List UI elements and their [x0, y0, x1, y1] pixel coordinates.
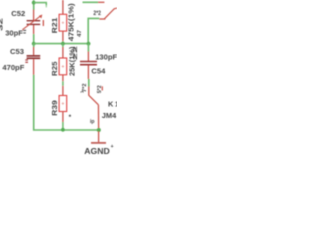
jumper JM4 top contact (diagonal): [104, 8, 117, 19]
junction node centre: [61, 42, 65, 46]
svg-text:C54: C54: [91, 66, 106, 75]
wire between R25 and R39: [62, 81, 64, 86]
resistor R25: [59, 44, 67, 82]
junction node mid left: [32, 42, 36, 46]
svg-text:K: K: [108, 99, 114, 108]
junction node bottom right: [97, 128, 101, 132]
wire stub above jumper: [88, 79, 90, 87]
svg-text:R39: R39: [50, 100, 59, 116]
junction node right: [87, 42, 91, 46]
svg-text:475K(1%): 475K(1%): [67, 3, 76, 42]
ground AGND bar: [91, 142, 106, 144]
svg-text:C53: C53: [10, 47, 24, 56]
jumper JM4 top pin stub: [99, 18, 105, 20]
svg-text:47: 47: [77, 30, 83, 37]
pin mark (red): [102, 86, 103, 90]
wire below C52: [33, 34, 35, 44]
svg-text:C52: C52: [11, 9, 25, 18]
svg-text:2*2: 2*2: [93, 10, 101, 17]
pin stub top right (red): [98, 1, 104, 3]
capacitor C53: [27, 44, 41, 75]
resistor R39: [59, 86, 67, 122]
svg-text:R21: R21: [50, 18, 59, 34]
wire branch over and short stub down: [34, 2, 47, 4]
svg-text:7*2: 7*2: [82, 83, 88, 92]
svg-text:32: 32: [0, 18, 5, 31]
junction node bottom centre: [61, 128, 65, 132]
wire into bottom junction: [62, 122, 64, 130]
jumper pin lead down: [97, 105, 99, 129]
svg-text:30pF: 30pF: [5, 28, 23, 37]
svg-text:130pF: 130pF: [95, 52, 117, 61]
wire left vertical long + bottom horizontal: [34, 75, 99, 130]
capacitor C54: [80, 44, 97, 79]
wire horizontal mid: [34, 43, 89, 45]
jumper JM4 bottom pin stub: [88, 86, 90, 95]
svg-text:470pF: 470pF: [2, 63, 24, 72]
pin number marks right of 30pF: [23, 30, 26, 31]
jumper JM4 bottom contact (diagonal): [89, 95, 99, 105]
wire vertical top left: [33, 0, 35, 10]
svg-text:R25: R25: [50, 62, 59, 77]
wire right upper: [88, 18, 99, 43]
capacitor C52 (trimmer): [22, 10, 44, 34]
ground AGND lead: [98, 131, 100, 142]
resistor R21: [59, 0, 67, 41]
wire to junction: [62, 41, 64, 43]
svg-text:*: *: [69, 114, 72, 121]
junction node top left: [32, 1, 36, 5]
svg-text:JM4: JM4: [102, 111, 117, 120]
svg-text:ip: ip: [90, 119, 94, 125]
svg-text:1: 1: [115, 99, 117, 108]
svg-text:AGND: AGND: [84, 147, 110, 156]
pin number marks right of 470pF: [25, 59, 28, 60]
wire top right: [83, 1, 99, 3]
svg-text:+: +: [111, 144, 114, 150]
svg-text:22: 22: [73, 46, 79, 60]
